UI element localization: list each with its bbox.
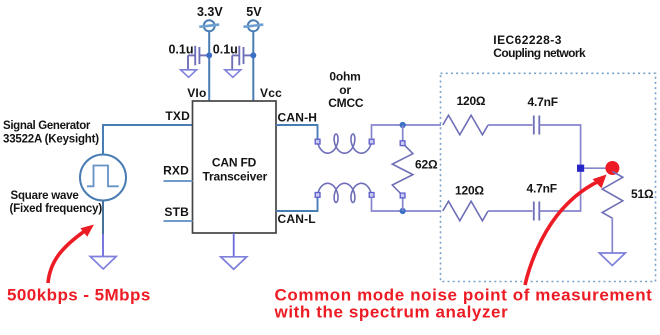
- ground SG1: [90, 257, 116, 270]
- svg-text:33522A (Keysight): 33522A (Keysight): [3, 134, 99, 146]
- svg-text:CMCC: CMCC: [328, 96, 364, 110]
- svg-text:Signal Generator: Signal Generator: [3, 120, 91, 132]
- ground C2: [225, 70, 241, 78]
- node B dot (CAN-L / 62ohm): [400, 208, 406, 214]
- signal generator SG1 33522A: [80, 155, 126, 201]
- svg-text:500kbps - 5Mbps: 500kbps - 5Mbps: [7, 286, 151, 305]
- inductor L1 (CMC top winding): [318, 134, 372, 153]
- power symbol 5V: [243, 20, 263, 31]
- transceiver U1 box: [193, 101, 277, 233]
- wire SG1 to ground: [102, 201, 104, 235]
- ground U1: [221, 257, 247, 270]
- wire STB stub: [164, 220, 193, 222]
- wire R4 to ground: [611, 218, 613, 253]
- svg-text:3.3V: 3.3V: [197, 5, 223, 19]
- ground C1: [181, 70, 197, 78]
- wire C3 to junction: [539, 125, 580, 165]
- svg-text:0ohm: 0ohm: [329, 70, 360, 84]
- red arrow left (500kbps annotation): [48, 225, 94, 284]
- capacitor C4 4.7nF bottom: [534, 202, 540, 221]
- node A dot (CAN-H / 62ohm): [400, 122, 406, 128]
- svg-text:CAN-H: CAN-H: [278, 111, 318, 125]
- wire TXD from SG1 to U1: [103, 125, 193, 155]
- capacitor C1 0.1u: [188, 46, 208, 70]
- svg-text:Transceiver: Transceiver: [203, 170, 268, 184]
- svg-text:STB: STB: [164, 205, 189, 219]
- resistor R3 120ohm bottom: [443, 201, 488, 221]
- wire 3.3V rail to VIo: [208, 31, 210, 101]
- svg-text:4.7nF: 4.7nF: [528, 95, 558, 109]
- svg-text:or: or: [339, 83, 351, 97]
- svg-text:Vcc: Vcc: [260, 86, 282, 100]
- svg-text:TXD: TXD: [165, 109, 190, 123]
- ground R4: [599, 253, 625, 266]
- svg-text:51Ω: 51Ω: [631, 187, 654, 201]
- svg-text:VIo: VIo: [187, 86, 206, 100]
- svg-text:Square wave: Square wave: [11, 190, 79, 202]
- svg-text:CAN-L: CAN-L: [278, 212, 316, 226]
- wire CAN-L from U1 to L2: [276, 197, 318, 211]
- svg-text:120Ω: 120Ω: [455, 184, 484, 198]
- junction dot C1/rail: [206, 52, 212, 58]
- svg-text:RXD: RXD: [163, 164, 189, 178]
- junction dot C2/rail: [250, 52, 256, 58]
- wire C4 to junction: [539, 171, 580, 211]
- svg-text:IEC62228-3: IEC62228-3: [493, 33, 562, 47]
- wire CAN-H from U1 to L1: [276, 125, 318, 139]
- red arrow right (common mode annotation): [525, 175, 607, 286]
- wire junction to measurement point: [584, 167, 606, 169]
- wire R3 to C4: [488, 210, 532, 212]
- junction square node: [577, 165, 584, 172]
- wire U1 to ground: [233, 233, 235, 257]
- inductor L2 (CMC bottom winding): [318, 183, 372, 202]
- wire L2 to node B: [372, 197, 442, 211]
- svg-text:5V: 5V: [246, 5, 262, 19]
- capacitor C3 4.7nF top: [534, 116, 540, 135]
- resistor R1 62ohm: [402, 125, 404, 143]
- resistor R4 51ohm: [602, 172, 623, 219]
- wire L1 to node A: [372, 125, 442, 139]
- svg-text:120Ω: 120Ω: [457, 94, 486, 108]
- svg-text:(Fixed frequency): (Fixed frequency): [10, 203, 103, 215]
- svg-text:62Ω: 62Ω: [415, 158, 438, 172]
- wire R2 to C3: [488, 124, 532, 126]
- capacitor C2 0.1u: [232, 46, 252, 70]
- svg-text:0.1u: 0.1u: [213, 43, 238, 57]
- resistor R2 120ohm top: [443, 115, 488, 135]
- power symbol 3.3V: [199, 20, 219, 31]
- svg-text:4.7nF: 4.7nF: [527, 182, 557, 196]
- svg-text:0.1u: 0.1u: [168, 43, 193, 57]
- svg-text:Coupling network: Coupling network: [493, 46, 586, 60]
- svg-text:CAN FD: CAN FD: [212, 156, 257, 170]
- wire 5V rail to Vcc: [252, 31, 254, 101]
- svg-text:with the spectrum analyzer: with the spectrum analyzer: [274, 303, 509, 322]
- wire RXD stub: [164, 180, 193, 182]
- svg-text:Common mode noise point of mea: Common mode noise point of measurement: [275, 285, 653, 304]
- coupling network dashed box: [441, 73, 656, 281]
- measurement point (red dot): [605, 161, 619, 175]
